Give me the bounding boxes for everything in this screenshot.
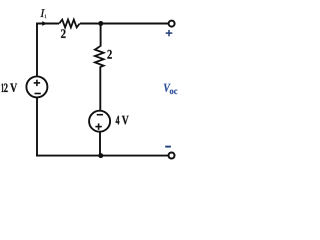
voltage source V2 plus sign (95, 123, 101, 129)
wire middle branch upper (100, 24, 102, 47)
label V1 value 12 V (2, 84, 18, 93)
wire middle branch mid (99, 67, 101, 111)
resistor R1 2 ohm horizontal (59, 20, 79, 28)
label V2 value 4 V (116, 116, 129, 125)
wire top (resistor to terminal) (80, 23, 169, 25)
voltage source V1 minus sign (35, 93, 41, 95)
label R1 value 2 (61, 29, 66, 38)
wire middle branch lower (99, 132, 101, 155)
terminal bottom open circle (169, 153, 175, 159)
label R2 value 2 (107, 50, 111, 59)
wire left branch lower (36, 98, 38, 157)
label - terminal (blue) (165, 146, 171, 148)
wire bottom (36, 155, 168, 157)
resistor R2 2 ohm vertical (95, 46, 104, 67)
voltage source V1 12V circle (26, 76, 47, 97)
voltage source V2 4V circle (89, 111, 110, 132)
label I1 (40, 9, 46, 18)
label + terminal (blue) (166, 30, 173, 36)
label Voc (blue) (164, 84, 177, 94)
node junction top (98, 21, 103, 26)
terminal top open circle (169, 21, 175, 27)
voltage source V1 plus sign (34, 80, 40, 86)
voltage source V2 minus sign (97, 114, 103, 116)
current arrow I1 (42, 21, 47, 26)
node junction bottom (98, 153, 103, 158)
wire left branch top (corner to top wire) (37, 24, 59, 77)
